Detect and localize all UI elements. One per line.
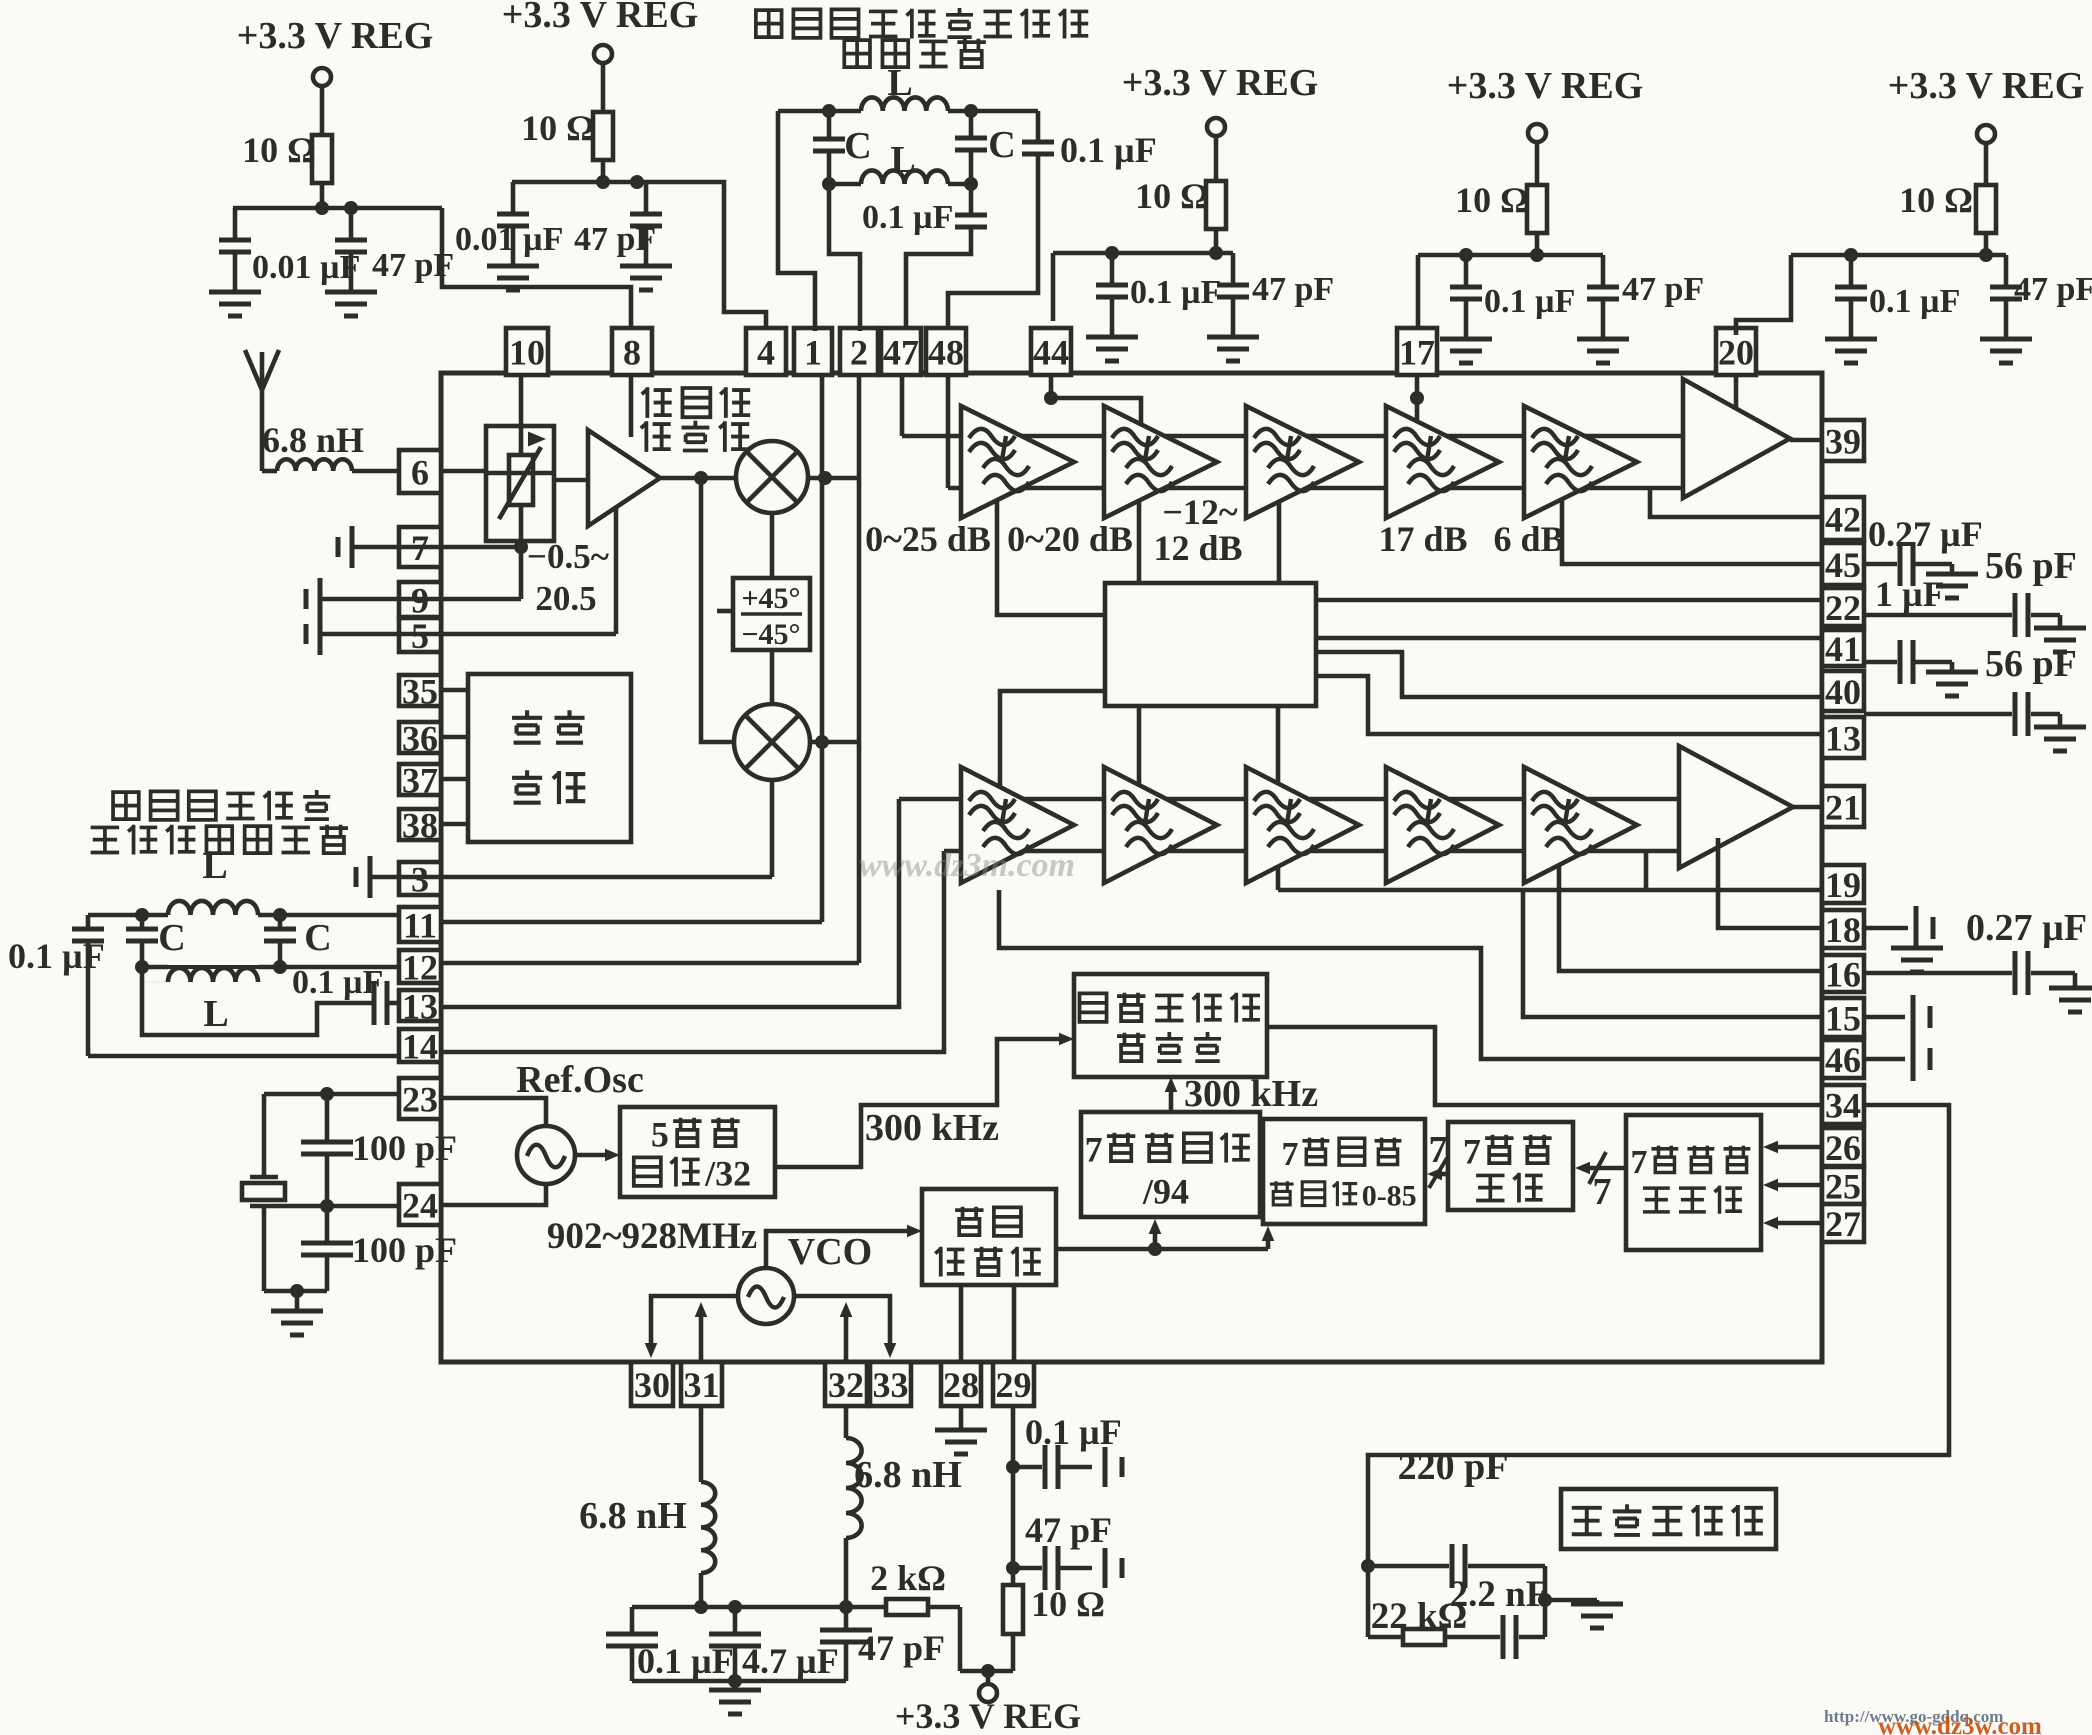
wire: top LC rail xyxy=(778,104,1038,118)
capacitor C (left net left branch) xyxy=(126,915,186,967)
wire: pin 36 to chip control xyxy=(441,735,468,740)
wire: mixer1 to phase shifter xyxy=(770,513,775,578)
svg-text:100 pF: 100 pF xyxy=(352,1128,457,1168)
pin 15 (right edge) xyxy=(1822,998,1864,1038)
svg-text:13: 13 xyxy=(1825,718,1861,758)
wire S2: resistor to rail node xyxy=(596,160,610,189)
svg-text:2.2 nF: 2.2 nF xyxy=(1450,1574,1549,1615)
wire+arrow: VCO right to pin 33 xyxy=(794,1296,896,1358)
wire: far right branch down to pin 48 xyxy=(948,156,1038,328)
loop filter node xyxy=(1361,1559,1375,1573)
svg-text:25: 25 xyxy=(1825,1166,1861,1206)
svg-text:300 kHz: 300 kHz xyxy=(1184,1073,1318,1115)
svg-text:C: C xyxy=(844,125,871,167)
capacitor 0.1 uF (pin 29 upper) xyxy=(1013,1412,1122,1489)
label 17 dB xyxy=(1378,519,1467,559)
pin 14 (left edge) xyxy=(399,1026,441,1066)
wire: antenna to inductor xyxy=(262,390,277,471)
svg-text:www.dz3w.com: www.dz3w.com xyxy=(1878,1713,2042,1735)
capacitor C (left net right branch) xyxy=(264,915,332,967)
resistor 10 ohm (pin 29) xyxy=(1003,1584,1105,1634)
7-bit shift register block xyxy=(1626,1115,1761,1250)
wire: pin 12 internal xyxy=(441,961,859,966)
wire: pin 17 leg to upper chain xyxy=(1410,375,1424,422)
inductor L (top, between pins 1-2 net) xyxy=(861,62,948,111)
pin 4 (top edge) xyxy=(746,328,786,375)
ground at pin 28 xyxy=(935,1406,987,1454)
wire: AGC tap to lower stage2 xyxy=(1137,706,1142,785)
capacitor 220 pF (loop filter) xyxy=(1368,1446,1545,1588)
watermark www.dz3m.com xyxy=(859,847,1075,884)
pin 34 (right edge) xyxy=(1822,1085,1864,1125)
wire: pin 19 run xyxy=(1278,888,1822,893)
svg-text:+3.3 V REG: +3.3 V REG xyxy=(1122,62,1319,104)
svg-text:32: 32 xyxy=(828,1365,864,1405)
pin 20 (top edge) xyxy=(1716,328,1756,375)
wire+arrow: pin 31 up to VCO line xyxy=(695,1302,708,1362)
svg-text:6 dB: 6 dB xyxy=(1493,519,1564,559)
output amplifier (lower chain) xyxy=(1679,746,1793,868)
pin 21 (right edge) xyxy=(1822,786,1864,827)
svg-text:5: 5 xyxy=(651,1115,669,1155)
label VCO xyxy=(788,1231,872,1273)
wire: pin 48 leg to upper bus xyxy=(946,375,951,488)
7-bit latch block xyxy=(1448,1122,1573,1210)
svg-text:3: 3 xyxy=(411,859,429,899)
capacitor S5b (47 pF) xyxy=(1990,255,2092,339)
svg-text:2: 2 xyxy=(850,332,868,372)
svg-text:0.1 µF: 0.1 µF xyxy=(1130,274,1221,311)
pin 6 (left edge) xyxy=(399,450,441,493)
wire: lower-cap branch down to pin 47 xyxy=(906,229,971,328)
wire S2: rail to pin 4 xyxy=(646,182,766,330)
wire: tap to pin 45 xyxy=(1562,499,1822,564)
pin 3 (left edge) xyxy=(399,859,441,899)
variable attenuator block xyxy=(486,426,554,541)
svg-text:−45°: −45° xyxy=(741,618,800,651)
junction dots S1 xyxy=(344,201,358,215)
label Ref.Osc xyxy=(516,1059,644,1101)
wire: AGC to pin 41 xyxy=(1316,636,1822,641)
svg-text:27: 27 xyxy=(1825,1204,1861,1244)
svg-text:12: 12 xyxy=(402,947,438,987)
wire+arrow: pin 27 to shift register xyxy=(1763,1217,1822,1230)
svg-text:47 pF: 47 pF xyxy=(1622,271,1704,308)
wire: left net to pin 11 xyxy=(280,913,399,918)
capacitor at pin 15 xyxy=(1864,995,1930,1039)
capacitor 0.27 uF at pin 18 xyxy=(1864,906,2087,972)
pin 27 (right edge) xyxy=(1822,1204,1864,1244)
wire: left net bottom rail segment xyxy=(168,965,258,969)
capacitor 0.1 uF (tank) xyxy=(606,1607,734,1681)
wire: upper bus step to pin 42 xyxy=(1650,488,1822,517)
svg-text:10 Ω: 10 Ω xyxy=(1455,180,1529,220)
svg-text:11: 11 xyxy=(403,905,437,945)
wire: left net top rail xyxy=(88,908,287,922)
resistor 22 kOhm (loop filter) xyxy=(1368,1596,1467,1645)
svg-text:40: 40 xyxy=(1825,672,1861,712)
svg-text:2 kΩ: 2 kΩ xyxy=(870,1558,946,1598)
ground under capacitor S5b xyxy=(1980,339,2032,363)
phase detector / charge pump block xyxy=(1074,974,1267,1077)
5-bit counter /32 block xyxy=(620,1107,775,1197)
pin 42 (right edge) xyxy=(1822,497,1864,540)
pin 24 (left edge) xyxy=(399,1184,441,1225)
wire: shared plate pins 15/46 xyxy=(1911,1039,1916,1041)
svg-text:17 dB: 17 dB xyxy=(1378,519,1467,559)
pin 31 (bottom edge) xyxy=(681,1362,722,1406)
wire: tank ground rail xyxy=(632,1674,846,1688)
svg-text:/32: /32 xyxy=(704,1154,751,1194)
+3.3 V REG terminal S1 xyxy=(237,15,434,86)
svg-text:www.dz3m.com: www.dz3m.com xyxy=(859,847,1075,884)
inductor L (left net, top) xyxy=(168,845,258,915)
wire: pin 47 leg to upper bus xyxy=(900,375,905,436)
wire: mixer2 out node xyxy=(810,735,859,749)
capacitor 47 pF (tank) xyxy=(820,1607,945,1681)
svg-text:47 pF: 47 pF xyxy=(1252,271,1334,308)
wire: 300 kHz path to phase detector xyxy=(775,1033,1074,1167)
wire S3: decoupling rail xyxy=(1053,251,1233,256)
svg-text:−12~: −12~ xyxy=(1162,492,1238,532)
wire: pin 20 leg to upper amp xyxy=(1734,375,1739,409)
capacitor 56 pF at pin 41 xyxy=(1864,640,2077,685)
label 0~25 dB xyxy=(865,519,991,559)
pin 12 (left edge) xyxy=(399,947,441,987)
wire: 2k resistor path down xyxy=(958,1607,963,1671)
label 0~20 dB xyxy=(1007,519,1133,559)
capacitor S1a (0.01 µF) xyxy=(219,208,360,292)
pin 29 (bottom edge) xyxy=(993,1362,1034,1406)
wire: tap to pin 15 xyxy=(1523,890,1822,1017)
svg-text:47 pF: 47 pF xyxy=(2014,271,2092,308)
svg-text:16: 16 xyxy=(1825,954,1861,994)
ground under capacitor S4a xyxy=(1440,339,1492,363)
capacitor 0.1 uF (far left) xyxy=(8,915,105,976)
capacitor 4.7 uF (tank) xyxy=(709,1607,839,1681)
capacitor S2a (0.01 µF) xyxy=(455,182,563,266)
wire: upper amp out to pin 39 xyxy=(1790,438,1822,443)
watermark go-gddq xyxy=(1824,1707,2003,1726)
note: component-value reference filter design (top) xyxy=(756,8,1088,67)
pin 35 (left edge) xyxy=(399,671,441,711)
wire: pin 24 external xyxy=(277,1199,399,1213)
svg-text:−0.5~: −0.5~ xyxy=(527,537,609,576)
+3.3 V REG terminal S5 xyxy=(1888,65,2085,143)
inductor L (left net, bottom) xyxy=(168,968,258,1035)
capacitor S3a (0.1 µF) xyxy=(1096,253,1221,337)
loop filter label box xyxy=(1561,1489,1776,1549)
wire S5: rail to pin 20 xyxy=(1736,255,1791,335)
svg-text:0~25 dB: 0~25 dB xyxy=(865,519,991,559)
capacitor S1b (47 pF) xyxy=(335,208,454,292)
svg-text:0.01 µF: 0.01 µF xyxy=(252,249,360,286)
wire+ground at pin 5 xyxy=(306,613,441,655)
resistor S1 10 ohm xyxy=(242,130,332,183)
ground under capacitor S2a xyxy=(487,266,539,290)
svg-text:46: 46 xyxy=(1825,1040,1861,1080)
junction dots S2 xyxy=(630,175,644,189)
pin 19 (right edge) xyxy=(1822,865,1864,905)
wire: pin 11 internal xyxy=(441,920,822,925)
label 902~928MHz xyxy=(547,1216,757,1257)
wire: pin 1 leg down to mixer1 output xyxy=(820,375,825,478)
svg-text:+3.3 V REG: +3.3 V REG xyxy=(895,1696,1081,1735)
capacitor at pin 16 xyxy=(1864,951,2075,995)
wire S1: terminal to resistor xyxy=(320,86,325,135)
+3.3 V REG terminal S4 xyxy=(1447,65,1644,142)
wire: pin 34 to loop filter xyxy=(1368,1105,1949,1566)
wire: pin 5 to LNA bottom edge xyxy=(441,506,616,634)
pin 33 (bottom edge) xyxy=(870,1362,911,1406)
mixer M1 (upper) xyxy=(736,441,808,513)
ground under capacitor S1a xyxy=(209,292,261,316)
svg-text:/94: /94 xyxy=(1142,1172,1189,1212)
svg-text:0.1 µF: 0.1 µF xyxy=(862,199,953,236)
filter-amplifier stage U8 (lower chain) xyxy=(961,767,1074,883)
pin 5 (left edge) xyxy=(399,616,441,656)
ground under capacitor S5a xyxy=(1825,339,1877,363)
ground at pin 40 cap xyxy=(2034,714,2086,751)
pin 47 (top edge) xyxy=(881,328,921,375)
wire+ground at pin 9 xyxy=(306,578,441,620)
wire: lower bus step to pin 19 run xyxy=(1644,851,1649,890)
wire: AGC leg to pin 19 run xyxy=(1276,706,1281,890)
wire: AGC tap to upper stage4 xyxy=(1277,501,1282,583)
wire: mixer2 bottom to pin 3 wire xyxy=(441,780,772,877)
svg-text:47 pF: 47 pF xyxy=(858,1628,945,1668)
svg-text:L: L xyxy=(202,845,227,887)
junction dots S4 xyxy=(1459,248,1473,262)
capacitor S2b (47 pF) xyxy=(574,182,662,266)
wire: tap to pin 16 xyxy=(1559,865,1822,971)
ground under capacitor S1b xyxy=(325,292,377,316)
svg-text:0.27 µF: 0.27 µF xyxy=(1868,514,1983,554)
svg-text:7: 7 xyxy=(1630,1144,1647,1181)
+3.3 V REG terminal (bottom) xyxy=(895,1671,1081,1735)
filter-amplifier stage U5 (upper chain) xyxy=(1386,406,1499,518)
capacitor 100 pF (lower) xyxy=(301,1206,457,1291)
pin 26 (right edge) xyxy=(1822,1128,1864,1168)
svg-text:12 dB: 12 dB xyxy=(1153,528,1242,568)
svg-text:1 µF: 1 µF xyxy=(1875,574,1945,614)
svg-text:47: 47 xyxy=(883,332,919,372)
wire: pin 44 leg to upper chain xyxy=(1044,375,1141,424)
wire: bottom-left leg to 0.1uF cap to pin 13 xyxy=(142,967,374,1035)
svg-text:13: 13 xyxy=(402,986,438,1026)
pin 39 (right edge) xyxy=(1822,420,1864,461)
svg-text:47 pF: 47 pF xyxy=(1025,1510,1112,1550)
svg-text:10 Ω: 10 Ω xyxy=(521,108,595,148)
svg-text:220 pF: 220 pF xyxy=(1398,1446,1509,1488)
pin 48 (top edge) xyxy=(926,328,966,375)
svg-text:36: 36 xyxy=(402,718,438,758)
wire: lower LC rail xyxy=(822,177,978,191)
svg-text:15: 15 xyxy=(1825,998,1861,1038)
pin 9 (left edge) xyxy=(399,580,441,620)
junction dots S5 xyxy=(1844,248,1858,262)
svg-text:56 pF: 56 pF xyxy=(1985,643,2077,685)
wire+arrow: pin 26 to shift register xyxy=(1763,1141,1822,1154)
wire: left branch down to pin 2 xyxy=(829,184,860,331)
svg-text:100 pF: 100 pF xyxy=(352,1230,457,1270)
pin 46 (right edge) xyxy=(1822,1040,1864,1080)
wire S3: rail to pin 44 xyxy=(1051,253,1056,321)
svg-text:23: 23 xyxy=(402,1079,438,1119)
svg-text:0.27 µF: 0.27 µF xyxy=(1966,907,2087,949)
wire+arrow: prescaler to swallow counter xyxy=(1262,1226,1275,1249)
svg-text:31: 31 xyxy=(684,1365,720,1405)
filter-amplifier stage U10 (lower chain) xyxy=(1246,767,1359,883)
wire: pin 10 leg into IC xyxy=(519,375,524,426)
wire S4: terminal to resistor xyxy=(1535,142,1540,185)
note: component-value reference filter design (left) xyxy=(91,790,348,854)
capacitor S3b (47 pF) xyxy=(1217,253,1334,337)
svg-text:22: 22 xyxy=(1825,588,1861,628)
pin 17 (top edge) xyxy=(1397,328,1437,375)
svg-text:38: 38 xyxy=(402,805,438,845)
svg-text:7: 7 xyxy=(1463,1132,1481,1172)
filter-amplifier stage U11 (lower chain) xyxy=(1386,767,1499,883)
wire: +3.3V node rail xyxy=(960,1664,1013,1678)
filter-amplifier stage U12 (lower chain) xyxy=(1524,767,1637,883)
wire+ground at pin 3 xyxy=(356,856,441,898)
chip-control block xyxy=(468,674,631,842)
resistor S5 10 ohm xyxy=(1899,180,1996,233)
svg-text:56 pF: 56 pF xyxy=(1985,545,2077,587)
wire: upper chain bus (bottom) xyxy=(948,486,1683,491)
svg-text:45: 45 xyxy=(1825,545,1861,585)
capacitor 47 pF (pin 29 lower) xyxy=(1013,1510,1122,1590)
wire: lower chain bus (bottom) xyxy=(944,849,1679,854)
svg-text:14: 14 xyxy=(402,1026,438,1066)
svg-text:902~928MHz: 902~928MHz xyxy=(547,1216,757,1257)
svg-text:0.1 µF: 0.1 µF xyxy=(1025,1412,1122,1452)
svg-text:37: 37 xyxy=(402,760,438,800)
wire+arrow: pin 32 up to VCO line xyxy=(840,1302,853,1362)
wire+arrow: Ref osc to 5-bit counter xyxy=(575,1149,620,1162)
inductor L (middle) xyxy=(861,139,948,184)
+3.3 V REG terminal S3 xyxy=(1122,62,1319,136)
wire: inductor to pin 6 xyxy=(352,469,399,474)
IC U1 body outline (48-pin transceiver) xyxy=(441,373,1822,1362)
filter-amplifier stage U6 (upper chain) xyxy=(1524,406,1637,518)
wire S4: decoupling rail xyxy=(1418,253,1603,258)
mixer M2 (lower) xyxy=(734,704,810,780)
wire+ground at pin 7 xyxy=(338,526,441,568)
label 1 uF at pin 22 xyxy=(1875,574,1945,614)
filter-amplifier stage U2 (upper chain) xyxy=(961,406,1074,518)
wire S1: decoupling rail xyxy=(233,206,442,211)
wire+arrow: pin 25 to shift register xyxy=(1763,1179,1822,1192)
inductor 6.8 nH (antenna) xyxy=(262,420,364,471)
pin 41 (right edge) xyxy=(1822,629,1864,669)
svg-text:7: 7 xyxy=(1281,1136,1298,1173)
wire S4: rail to pin 17 xyxy=(1416,255,1421,328)
wire: pin 38 to chip control xyxy=(441,822,468,827)
bus arrow: latch to swallow counter (7) xyxy=(1427,1129,1448,1188)
bus arrow: shift register to latch (7) xyxy=(1575,1152,1626,1213)
wire: pin 23 external xyxy=(264,1087,399,1101)
pin 23 (left edge) xyxy=(399,1078,441,1119)
ground under tank xyxy=(709,1681,761,1714)
ground under capacitor S3a xyxy=(1086,337,1138,361)
svg-text:0.1 µF: 0.1 µF xyxy=(1060,130,1157,170)
svg-text:7: 7 xyxy=(1593,1171,1612,1213)
pin 44 (top edge) xyxy=(1031,328,1071,375)
svg-text:8: 8 xyxy=(623,332,641,372)
capacitor at pin 46 xyxy=(1864,1037,1930,1081)
svg-text:42: 42 xyxy=(1825,499,1861,539)
wire: pin 6 to attenuator xyxy=(441,469,486,474)
ground at pin 22 cap xyxy=(2034,615,2086,652)
wire: pin 14 to lower chain input xyxy=(441,851,944,1052)
wire: loop filter left branch xyxy=(1366,1566,1371,1637)
capacitor 100 pF (upper) xyxy=(301,1094,457,1206)
svg-text:18: 18 xyxy=(1825,910,1861,950)
svg-text:C: C xyxy=(988,124,1015,166)
svg-text:300 kHz: 300 kHz xyxy=(865,1107,999,1149)
capacitor S4b (47 pF) xyxy=(1587,255,1704,339)
wire: far-left branch to pin 14 rail xyxy=(88,943,399,1056)
svg-text:17: 17 xyxy=(1399,332,1435,372)
inductor 6.8 nH (pin 32) xyxy=(846,1406,962,1607)
svg-text:+3.3 V REG: +3.3 V REG xyxy=(1888,65,2085,107)
svg-text:47 pF: 47 pF xyxy=(574,221,656,258)
svg-text:28: 28 xyxy=(943,1365,979,1405)
output amplifier (upper chain) xyxy=(1683,379,1790,498)
wire S1: resistor to rail node xyxy=(315,183,329,215)
svg-text:34: 34 xyxy=(1825,1085,1861,1125)
wire: mixer2 out down to pin 11 wire xyxy=(820,478,825,922)
ground at pin 41 cap xyxy=(1926,662,1978,696)
capacitor 56 pF at pin 45 xyxy=(1864,542,2077,587)
filter-amplifier stage U9 (lower chain) xyxy=(1104,767,1217,883)
wire: mixer1 out to pin2 leg xyxy=(808,471,859,485)
wire: crystal bottom rail xyxy=(264,1206,327,1298)
capacitor at pin 22 xyxy=(1864,593,2060,637)
capacitor 0.1 uF (below lower rail) xyxy=(862,184,987,236)
pin 30 (bottom edge) xyxy=(631,1362,673,1406)
wire: pin 13 to lower chain input xyxy=(441,799,899,1007)
7-bit counter /94 block xyxy=(1081,1112,1260,1217)
svg-text:48: 48 xyxy=(928,332,964,372)
pin 2 (top edge) xyxy=(840,328,878,375)
wire: lower amp out to pin 21 xyxy=(1793,805,1822,810)
svg-text:6: 6 xyxy=(411,452,429,492)
svg-text:33: 33 xyxy=(873,1365,909,1405)
pin 8 (top edge) xyxy=(612,328,652,375)
phase shifter +45/-45 block xyxy=(717,578,810,651)
svg-text:29: 29 xyxy=(996,1365,1032,1405)
wire: pin 37 to chip control xyxy=(441,777,468,782)
ground (loop filter) xyxy=(1571,1600,1623,1628)
svg-text:+3.3 V REG: +3.3 V REG xyxy=(1447,65,1644,107)
svg-text:1: 1 xyxy=(804,332,822,372)
svg-text:+3.3 V REG: +3.3 V REG xyxy=(502,0,699,36)
svg-text:19: 19 xyxy=(1825,865,1861,905)
prescaler block xyxy=(922,1189,1056,1285)
wire S4: resistor to rail node xyxy=(1530,233,1544,262)
wire: pin 2 leg down (LO rail) xyxy=(857,375,862,963)
wire: AGC tap to upper stage1 xyxy=(997,500,1105,615)
svg-text:0.1 µF: 0.1 µF xyxy=(1484,283,1575,320)
wire S3: terminal to resistor xyxy=(1214,136,1219,181)
wire: AGC tap to lower stage1 xyxy=(1000,691,1105,787)
wire S1: rail to pin 8 xyxy=(442,208,631,327)
wire S5: terminal to resistor xyxy=(1984,143,1989,185)
wire: loop filter to ground xyxy=(1545,1598,1597,1603)
